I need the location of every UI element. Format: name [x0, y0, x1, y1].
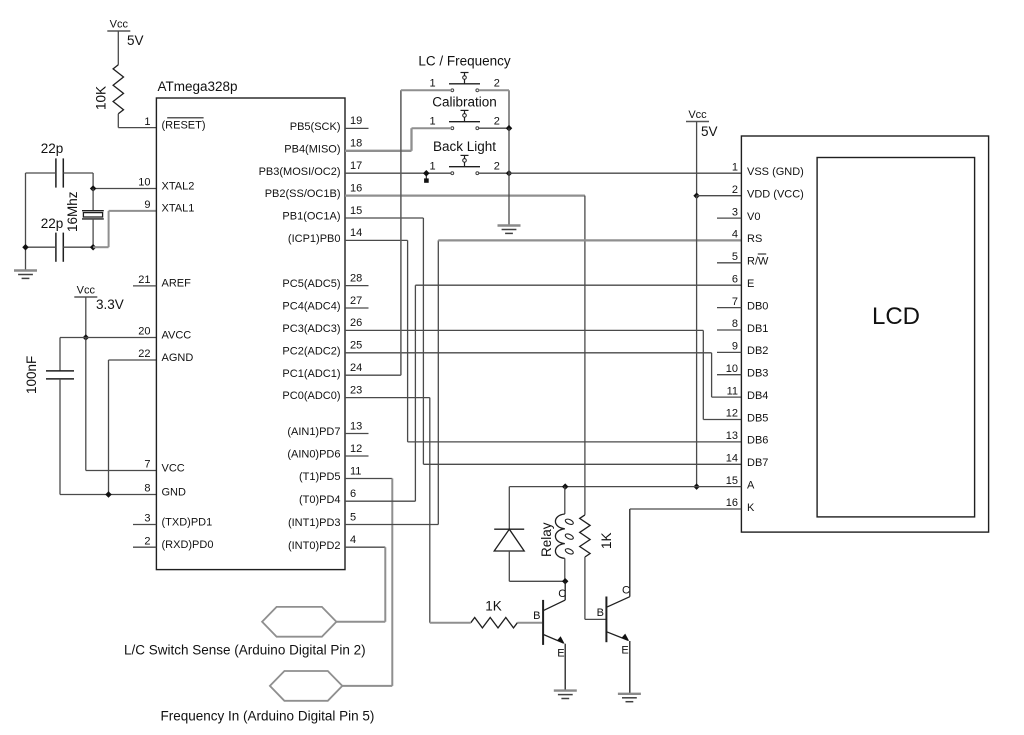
wire PC1 pin 24 to LC/Frequency	[345, 90, 401, 375]
svg-text:PB2(SS/OC1B): PB2(SS/OC1B)	[265, 188, 341, 200]
wire PD5 pin 11 to Frequency In	[342, 479, 392, 686]
svg-text:9: 9	[144, 199, 150, 211]
svg-text:13: 13	[726, 430, 738, 442]
wire S1 left lead	[401, 89, 451, 91]
capacitor C1 22p (top)	[41, 141, 64, 188]
wire C2 to crystal node	[63, 246, 93, 248]
wire VCC pin 7	[86, 338, 157, 471]
transistor Q2	[597, 509, 630, 694]
svg-text:LCD: LCD	[872, 303, 920, 330]
svg-text:7: 7	[732, 296, 738, 308]
svg-text:3.3V: 3.3V	[96, 297, 124, 312]
node hexagon L/C Switch Sense	[262, 607, 336, 637]
node A junction	[693, 483, 700, 490]
svg-text:PB5(SCK): PB5(SCK)	[290, 121, 341, 133]
ground (buttons)	[498, 226, 521, 234]
svg-text:B: B	[597, 607, 604, 619]
svg-text:RS: RS	[747, 233, 762, 245]
svg-text:(ICP1)PB0: (ICP1)PB0	[288, 233, 341, 245]
svg-text:PC0(ADC0): PC0(ADC0)	[282, 390, 340, 402]
wire ground rail down	[508, 128, 510, 225]
svg-text:V0: V0	[747, 211, 760, 223]
svg-text:22: 22	[138, 348, 150, 360]
svg-text:16Mhz: 16Mhz	[65, 191, 80, 232]
wire ground rail to LCD VSS	[509, 172, 741, 174]
svg-text:GND: GND	[162, 486, 187, 498]
svg-text:LC / Frequency: LC / Frequency	[418, 54, 511, 69]
svg-text:14: 14	[350, 227, 362, 239]
power symbol Vcc 5V (top left)	[107, 19, 143, 49]
svg-text:A: A	[747, 479, 755, 491]
pin labels U1 right side	[259, 115, 369, 552]
svg-text:6: 6	[732, 273, 738, 285]
svg-text:8: 8	[732, 318, 738, 330]
wire Vcc rail down to A	[696, 196, 698, 487]
wire PD3 pin 5 to LCD RS	[345, 240, 741, 524]
svg-text:5: 5	[732, 251, 738, 263]
svg-text:E: E	[557, 647, 564, 659]
svg-text:28: 28	[350, 272, 362, 284]
power symbol Vcc 3.3V	[74, 285, 123, 313]
svg-text:15: 15	[726, 475, 738, 487]
ground (Q2 emitter)	[618, 694, 641, 702]
ground (Q1 emitter)	[554, 691, 577, 699]
wire PD2 pin 4 to L/C Switch Sense	[336, 547, 385, 622]
svg-text:Back Light: Back Light	[433, 139, 496, 154]
svg-text:DB7: DB7	[747, 457, 768, 469]
svg-text:6: 6	[350, 488, 356, 500]
wire left rail	[25, 173, 27, 271]
svg-text:(T0)PD4: (T0)PD4	[299, 494, 341, 506]
resistor R1 10K	[94, 65, 124, 114]
svg-text:DB6: DB6	[747, 435, 768, 447]
svg-text:17: 17	[350, 160, 362, 172]
svg-text:2: 2	[494, 161, 500, 173]
svg-text:1: 1	[144, 116, 150, 128]
svg-text:12: 12	[726, 408, 738, 420]
wire S2 left lead	[412, 127, 452, 129]
svg-text:2: 2	[494, 78, 500, 90]
svg-text:100nF: 100nF	[24, 356, 39, 394]
node XTAL2 junction	[90, 185, 97, 192]
svg-text:PB3(MOSI/OC2): PB3(MOSI/OC2)	[259, 166, 341, 178]
wire R3 to Q2 base	[585, 557, 607, 619]
wire resistor to RESET pin 1	[118, 114, 156, 128]
svg-text:E: E	[747, 278, 754, 290]
svg-text:2: 2	[144, 535, 150, 547]
wire Q2 collector to LCD K	[630, 508, 742, 510]
svg-text:PC1(ADC1): PC1(ADC1)	[282, 368, 340, 380]
svg-text:DB5: DB5	[747, 412, 768, 424]
svg-text:18: 18	[350, 138, 362, 150]
power symbol Vcc 5V (LCD)	[686, 109, 718, 139]
pin labels U2 LCD	[717, 162, 804, 514]
svg-text:11: 11	[350, 465, 361, 477]
IC U1 ATmega328p	[156, 79, 345, 570]
node AGND-GND junction	[105, 491, 112, 498]
node hexagon Frequency In	[270, 671, 342, 701]
wire PB4 pin 18 to Calibration	[345, 128, 412, 151]
svg-text:DB1: DB1	[747, 323, 768, 335]
label Frequency In	[161, 709, 375, 724]
svg-text:4: 4	[350, 534, 356, 546]
wire 5V to A row	[509, 486, 741, 488]
svg-text:3: 3	[732, 206, 738, 218]
svg-text:1: 1	[429, 161, 435, 173]
svg-text:8: 8	[144, 483, 150, 495]
svg-text:5: 5	[350, 511, 356, 523]
wire left rail to C2	[26, 246, 56, 248]
svg-text:C: C	[558, 588, 566, 600]
svg-text:B: B	[533, 610, 540, 622]
wire PB3 pin 17 to Back Light	[345, 172, 451, 174]
svg-text:PC2(ADC2): PC2(ADC2)	[282, 345, 340, 357]
node AVCC junction	[83, 334, 90, 341]
svg-text:25: 25	[350, 340, 362, 352]
svg-text:24: 24	[350, 362, 362, 374]
wire S1 right lead to ground rail	[479, 90, 510, 128]
svg-text:14: 14	[726, 453, 738, 465]
relay K1 coil	[539, 487, 574, 582]
svg-text:L/C Switch Sense (Arduino Digi: L/C Switch Sense (Arduino Digital Pin 2)	[124, 643, 366, 658]
svg-text:16: 16	[350, 182, 362, 194]
ground (crystal)	[14, 271, 37, 279]
label L/C Switch Sense	[124, 643, 366, 658]
wire Vcc to VDD	[696, 122, 698, 196]
svg-text:DB0: DB0	[747, 300, 768, 312]
svg-text:(AIN1)PD7: (AIN1)PD7	[287, 426, 340, 438]
svg-text:15: 15	[350, 205, 362, 217]
resistor R2 1K (horizontal)	[471, 599, 518, 628]
svg-text:1: 1	[429, 78, 435, 90]
svg-text:Vcc: Vcc	[110, 19, 129, 31]
wire C3 to GND row	[60, 379, 156, 495]
capacitor C3 100nF	[24, 356, 74, 394]
svg-text:PB1(OC1A): PB1(OC1A)	[282, 211, 340, 223]
svg-text:PC3(ADC3): PC3(ADC3)	[282, 323, 340, 335]
svg-text:23: 23	[350, 384, 362, 396]
svg-text:2: 2	[494, 116, 500, 128]
svg-text:VSS (GND): VSS (GND)	[747, 166, 804, 178]
node ground rail junction 1	[506, 125, 513, 132]
svg-text:3: 3	[144, 513, 150, 525]
svg-text:(T1)PD5: (T1)PD5	[299, 471, 341, 483]
resistor R3 1K (vertical)	[580, 515, 614, 557]
svg-text:Vcc: Vcc	[77, 285, 96, 297]
wire S3 right lead	[479, 172, 510, 174]
svg-text:11: 11	[727, 385, 738, 397]
wire XTAL2 node to crystal	[92, 189, 94, 211]
wire VDD pin 2	[697, 195, 742, 197]
svg-text:5V: 5V	[701, 124, 718, 139]
svg-text:Frequency In (Arduino Digital: Frequency In (Arduino Digital Pin 5)	[161, 709, 375, 724]
wire PC2 pin 25 to DB4	[345, 353, 741, 397]
svg-text:AREF: AREF	[162, 278, 192, 290]
wire PC0 pin 23 to base resistor	[345, 398, 430, 623]
wire PB2 pin 16	[345, 196, 585, 515]
capacitor C2 22p (bottom)	[41, 216, 64, 262]
diode D1	[494, 487, 524, 582]
switch S1 LC / Frequency	[418, 54, 511, 92]
wire PC3 pin 26 to DB5	[345, 330, 741, 419]
wire AVCC pin 20	[60, 337, 156, 339]
svg-text:ATmega328p: ATmega328p	[158, 79, 238, 94]
wire AVCC rail down to C3	[59, 338, 61, 371]
svg-text:(TXD)PD1: (TXD)PD1	[162, 516, 213, 528]
wire C1 to XTAL2 node	[63, 173, 93, 189]
svg-text:(RESET): (RESET)	[162, 119, 206, 131]
node ground rail junction 2	[506, 170, 513, 177]
svg-text:13: 13	[350, 420, 362, 432]
svg-text:26: 26	[350, 317, 362, 329]
switch S2 Calibration	[429, 95, 499, 130]
svg-text:R/W: R/W	[747, 256, 769, 268]
node left rail junction	[22, 244, 29, 251]
svg-text:22p: 22p	[41, 216, 64, 231]
svg-text:12: 12	[350, 443, 362, 455]
svg-text:(INT1)PD3: (INT1)PD3	[288, 517, 341, 529]
svg-text:Calibration: Calibration	[432, 95, 497, 110]
svg-text:DB2: DB2	[747, 345, 768, 357]
node collector junction	[562, 578, 569, 585]
svg-text:Relay: Relay	[539, 522, 554, 557]
svg-text:7: 7	[144, 459, 150, 471]
svg-text:PC4(ADC4): PC4(ADC4)	[282, 301, 340, 313]
svg-text:AVCC: AVCC	[162, 329, 192, 341]
transistor Q1	[533, 581, 566, 690]
svg-text:(INT0)PD2: (INT0)PD2	[288, 540, 341, 552]
wire S2 right lead	[479, 127, 510, 129]
svg-text:PB4(MISO): PB4(MISO)	[284, 143, 340, 155]
svg-text:10: 10	[138, 177, 150, 189]
svg-text:VCC: VCC	[162, 462, 185, 474]
svg-text:E: E	[621, 645, 628, 657]
switch S3 Back Light	[429, 139, 499, 175]
svg-text:22p: 22p	[41, 141, 64, 156]
svg-text:XTAL1: XTAL1	[162, 203, 195, 215]
wire PB0 pin 14 to DB6	[345, 240, 741, 442]
wire XTAL2 pin 10	[93, 188, 156, 190]
wire XTAL1 elbow	[93, 211, 156, 247]
svg-text:27: 27	[350, 295, 362, 307]
svg-text:PC5(ADC5): PC5(ADC5)	[282, 278, 340, 290]
svg-text:DB3: DB3	[747, 368, 768, 380]
svg-text:1K: 1K	[599, 532, 614, 549]
svg-text:10: 10	[726, 363, 738, 375]
svg-text:10K: 10K	[94, 86, 109, 110]
wire Vcc to resistor	[117, 31, 119, 65]
svg-text:K: K	[747, 502, 755, 514]
wire R2 to Q1 base	[517, 622, 542, 624]
wire PD4 pin 6 to LCD E	[345, 285, 741, 501]
IC U2 LCD module	[741, 136, 988, 532]
svg-text:1: 1	[732, 162, 738, 174]
svg-text:(RXD)PD0: (RXD)PD0	[162, 539, 214, 551]
svg-text:16: 16	[726, 497, 738, 509]
svg-text:2: 2	[732, 184, 738, 196]
node PB3 junction	[423, 170, 430, 183]
crystal Y1 16Mhz	[65, 191, 104, 232]
node crystal bottom junction	[90, 244, 97, 251]
svg-text:21: 21	[138, 274, 150, 286]
pin labels U1 left side	[133, 116, 213, 551]
wire 3.3V to AVCC	[85, 297, 87, 338]
svg-text:4: 4	[732, 229, 738, 241]
node VDD junction	[693, 192, 700, 199]
svg-text:DB4: DB4	[747, 390, 768, 402]
svg-text:5V: 5V	[127, 33, 144, 48]
wire PC0 to R2	[430, 622, 471, 624]
svg-text:9: 9	[732, 341, 738, 353]
wire left rail to C1	[26, 172, 56, 174]
svg-text:C: C	[622, 584, 630, 596]
svg-text:XTAL2: XTAL2	[162, 180, 195, 192]
wire diode to collector node	[509, 580, 565, 582]
svg-text:Vcc: Vcc	[688, 109, 707, 121]
wire crystal to bottom node	[92, 219, 94, 247]
svg-text:20: 20	[138, 326, 150, 338]
svg-text:VDD (VCC): VDD (VCC)	[747, 189, 804, 201]
node relay top junction	[562, 483, 569, 490]
svg-text:1: 1	[429, 116, 435, 128]
wire AGND pin 22	[109, 360, 157, 495]
svg-text:(AIN0)PD6: (AIN0)PD6	[287, 449, 340, 461]
svg-text:1K: 1K	[485, 599, 502, 614]
svg-text:19: 19	[350, 115, 362, 127]
svg-text:AGND: AGND	[162, 352, 194, 364]
wire PB1 pin 15 to DB7	[345, 218, 741, 464]
